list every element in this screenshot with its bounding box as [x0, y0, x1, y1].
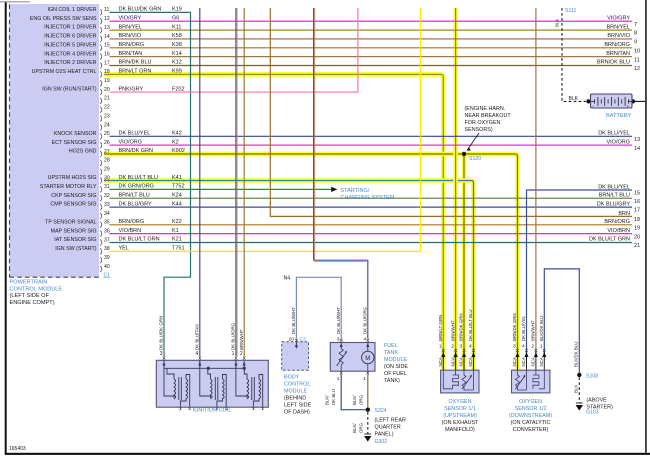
svg-text:13: 13: [104, 25, 110, 31]
svg-text:20: 20: [104, 87, 110, 93]
PCM description text: [10, 280, 63, 306]
wire BRN/WHT from top edge to oxygen sensor 1/2 pin 2: [535, 8, 537, 356]
svg-text:165403: 165403: [9, 446, 26, 452]
svg-text:BRN/ORG: BRN/ORG: [119, 42, 145, 48]
wire BLK/DK BLU from oxygen sensor 1/2 pin 1 to splice S108: [544, 269, 579, 373]
svg-text:PNK/GRY: PNK/GRY: [119, 86, 144, 92]
svg-text:BLK/: BLK/: [352, 395, 357, 405]
svg-text:K24: K24: [172, 192, 182, 198]
starting/charging system label: [341, 188, 395, 201]
wire BRN/WHT from top edge to ignition coil pin 2: [243, 8, 245, 356]
svg-text:BLK: BLK: [574, 385, 579, 393]
svg-text:BRN/ORG: BRN/ORG: [604, 42, 630, 48]
svg-text:IGN SW (RUN/START): IGN SW (RUN/START): [42, 87, 96, 93]
svg-text:BODY: BODY: [284, 375, 300, 381]
fuel tank module bottom pins: [337, 372, 369, 382]
PCM module box (Powertrain Control Module): [10, 4, 100, 277]
left rear quarter panel note: [375, 418, 406, 438]
svg-text:IGN COIL 1 DRIVER: IGN COIL 1 DRIVER: [48, 7, 97, 13]
svg-text:3: 3: [160, 351, 163, 357]
svg-text:BRN/YEL: BRN/YEL: [606, 24, 630, 30]
wire pin 26 VIO/ORG to right edge 14: [110, 144, 633, 146]
PCM connector label C1: [104, 273, 111, 279]
svg-text:S120: S120: [469, 156, 481, 162]
svg-text:19: 19: [634, 225, 640, 231]
rotated labels BLK/DK BLU and BLK/ORG at fuel tank module bottom: [325, 389, 364, 405]
svg-text:K42: K42: [172, 131, 182, 137]
svg-text:SENSOR 1/1: SENSOR 1/1: [444, 406, 476, 412]
rotated label BLK below S108: [574, 385, 579, 393]
svg-text:DK BLU/YEL: DK BLU/YEL: [521, 315, 526, 341]
svg-text:40: 40: [104, 264, 110, 270]
wire BLK dashed from S108 to ground G103: [578, 377, 580, 402]
svg-text:BRN/DK BLU: BRN/DK BLU: [597, 60, 630, 66]
svg-text:(ENGINE HARN.: (ENGINE HARN.: [465, 106, 506, 112]
body control module labels: [284, 375, 312, 416]
svg-text:23: 23: [104, 113, 110, 119]
svg-text:14: 14: [634, 146, 640, 152]
svg-text:35: 35: [104, 220, 110, 226]
svg-text:22: 22: [104, 105, 110, 111]
svg-text:MODULE: MODULE: [284, 389, 307, 395]
svg-text:1: 1: [540, 344, 543, 350]
svg-text:(ON CATALYTIC: (ON CATALYTIC: [511, 420, 551, 426]
svg-text:1: 1: [337, 376, 340, 382]
svg-text:1: 1: [232, 351, 235, 357]
svg-text:DK BLU/GRY: DK BLU/GRY: [119, 201, 153, 207]
svg-text:17: 17: [104, 60, 110, 66]
svg-text:16: 16: [104, 51, 110, 57]
svg-text:K38: K38: [172, 42, 182, 48]
wire pin 12 VIO/GRY to right edge 7: [110, 20, 633, 22]
page border left: [5, 2, 7, 454]
svg-text:S108: S108: [586, 373, 598, 379]
svg-text:3: 3: [513, 344, 516, 350]
svg-text:BRN/LT GRN: BRN/LT GRN: [438, 315, 443, 341]
svg-text:NCA: NCA: [539, 357, 544, 366]
right edge wire labels and numbers: [589, 15, 640, 249]
svg-text:(ON SIDE: (ON SIDE: [384, 364, 408, 370]
svg-text:M: M: [365, 356, 370, 362]
svg-text:21: 21: [634, 243, 640, 249]
svg-text:OF FUEL: OF FUEL: [384, 371, 407, 377]
wire pin 30 DK BLU/LT BLU (highlighted) to oxygen sensor 1/1 pin 4: [104, 181, 474, 370]
svg-text:OXYGEN: OXYGEN: [448, 399, 471, 405]
svg-text:BRN/DK GRN: BRN/DK GRN: [119, 148, 154, 154]
wire BLK/ORG dashed from S324 to ground G302: [367, 412, 369, 434]
svg-text:UPSTRM O2S HEAT CTRL: UPSTRM O2S HEAT CTRL: [32, 69, 97, 75]
svg-text:CONVERTER): CONVERTER): [513, 427, 549, 433]
svg-text:28: 28: [104, 158, 110, 164]
svg-text:18: 18: [104, 69, 110, 75]
svg-text:34: 34: [104, 211, 110, 217]
svg-text:F202: F202: [172, 86, 185, 92]
svg-text:8: 8: [634, 31, 637, 37]
svg-text:BATTERY: BATTERY: [606, 113, 632, 119]
svg-text:VIO/BRN: VIO/BRN: [607, 228, 630, 234]
svg-text:VIO/ORG: VIO/ORG: [119, 139, 143, 145]
svg-text:C1: C1: [104, 273, 111, 279]
wire pin 16 BRN/TAN to right edge 11: [110, 56, 633, 58]
wire pin 32 BRN/LT BLU to right edge 16: [110, 197, 633, 199]
body control module wire label and pin: [284, 276, 306, 343]
svg-text:IAT SENSOR SIG: IAT SENSOR SIG: [54, 237, 96, 243]
svg-text:ENG OIL PRESS SW SENS: ENG OIL PRESS SW SENS: [30, 16, 97, 22]
svg-text:BLK/: BLK/: [325, 395, 330, 405]
wire pin 18 BRN/LT GRN (highlighted) to oxygen sensor 1/1 pin 1: [104, 74, 443, 370]
svg-text:HO2S GND: HO2S GND: [69, 149, 97, 155]
svg-text:DK BLU/ORG: DK BLU/ORG: [363, 306, 368, 334]
svg-text:38: 38: [104, 246, 110, 252]
svg-text:K41: K41: [172, 175, 182, 181]
svg-text:(DOWNSTREAM): (DOWNSTREAM): [509, 413, 552, 419]
oxygen sensor 1/1 labels: [442, 399, 480, 433]
svg-text:TP SENSOR SIGNAL: TP SENSOR SIGNAL: [45, 219, 96, 225]
svg-text:INJECTOR 5 DRIVER: INJECTOR 5 DRIVER: [44, 42, 96, 48]
svg-text:DK BLU/TAN: DK BLU/TAN: [195, 324, 200, 350]
svg-text:DK BLU/LT BLU: DK BLU/LT BLU: [468, 309, 473, 341]
svg-text:OXYGEN: OXYGEN: [519, 399, 542, 405]
page border bottom: [5, 453, 650, 455]
svg-text:37: 37: [104, 237, 110, 243]
svg-text:DK BLU/WHT: DK BLU/WHT: [336, 307, 341, 334]
wire DK BLU/ORG from top edge to ignition coil pin 1: [236, 8, 237, 356]
svg-text:7: 7: [634, 22, 637, 28]
svg-text:36: 36: [104, 228, 110, 234]
wire BRN from top edge to right edge 18: [270, 8, 632, 216]
wire pin 14 BRN/VIO to right edge 9: [110, 38, 633, 40]
wire pin 11 DK BLU/DK GRN to ignition coil pin 3: [110, 12, 191, 356]
wire pin 17 BRN/DK BLU to right edge 12: [110, 65, 633, 67]
svg-text:BLK/: BLK/: [352, 423, 357, 433]
svg-text:FUEL: FUEL: [384, 343, 398, 349]
wire pin 38 YEL up to top edge: [110, 8, 421, 251]
svg-text:39: 39: [104, 255, 110, 261]
svg-text:DK BLU/DK GRN: DK BLU/DK GRN: [119, 7, 162, 13]
svg-text:K14: K14: [172, 51, 182, 57]
svg-text:ORG: ORG: [358, 394, 363, 405]
svg-text:BRN/TAN: BRN/TAN: [606, 51, 630, 57]
svg-text:19: 19: [104, 78, 110, 84]
wire pin 35 BRN/ORG to right edge 19: [110, 224, 633, 226]
oxygen sensor 1/2 connector (pins 3,4,2,1, NCA): [512, 313, 546, 371]
PCM pin function labels: [30, 7, 97, 252]
svg-text:4: 4: [469, 344, 472, 350]
svg-text:DK BLU/LT GRN: DK BLU/LT GRN: [589, 237, 630, 243]
svg-text:3: 3: [337, 337, 340, 343]
svg-text:N4: N4: [284, 276, 291, 282]
svg-text:K58: K58: [172, 33, 182, 39]
svg-text:DK BLU/LT BLU: DK BLU/LT BLU: [119, 175, 159, 181]
svg-text:(ABOVE: (ABOVE: [586, 398, 607, 404]
wire pin 20 PNK/GRY up to top edge: [110, 8, 358, 92]
ignition coil box: [156, 360, 268, 407]
svg-text:BRN/ORG: BRN/ORG: [604, 219, 630, 225]
body control module box: [282, 342, 309, 371]
svg-text:25: 25: [104, 131, 110, 137]
oxygen sensor 1/1 connector (pins 1-4, NCA): [438, 309, 476, 371]
svg-text:STARTER MOTOR RLY: STARTER MOTOR RLY: [40, 184, 97, 190]
diagram number 165403: [9, 446, 26, 452]
svg-text:(BEHIND: (BEHIND: [284, 396, 306, 402]
svg-text:OF DASH): OF DASH): [284, 410, 310, 416]
svg-text:BRN/ORG: BRN/ORG: [119, 219, 145, 225]
wire pin 33 DK BLU/GRY to right edge 17: [110, 206, 633, 208]
svg-text:32: 32: [104, 193, 110, 199]
wire BRN/WHT (highlighted) from top edge to oxygen sensor 1/1 pin 2: [453, 8, 458, 370]
svg-text:BRN/LT BLU: BRN/LT BLU: [599, 192, 630, 198]
page border right: [645, 0, 647, 453]
wire BLK/DK BLU from fuel tank module pin 1 to S324: [341, 375, 365, 410]
fuel tank module box: [330, 343, 375, 372]
svg-text:CMP SENSOR SIG: CMP SENSOR SIG: [50, 202, 96, 208]
oxygen sensor 1/1 internals: [443, 370, 473, 390]
svg-text:MODULE: MODULE: [384, 357, 407, 363]
fuel tank module wire labels and pins: [336, 306, 369, 342]
svg-text:20: 20: [634, 234, 640, 240]
svg-text:DK BLU/LT GRN: DK BLU/LT GRN: [119, 237, 160, 243]
svg-text:13: 13: [634, 137, 640, 143]
wire DK BLU/ORG from top edge to fuel tank module pin 4: [314, 8, 368, 339]
svg-text:POWERTRAIN: POWERTRAIN: [10, 280, 48, 286]
PCM wire colour and circuit code labels: [119, 7, 185, 252]
svg-text:(UPSTREAM): (UPSTREAM): [443, 413, 477, 419]
svg-text:(LEFT REAR: (LEFT REAR: [375, 418, 406, 424]
wire pin 36 VIO/BRN to right edge 20: [110, 233, 633, 235]
svg-text:NCA: NCA: [459, 357, 464, 366]
svg-text:SENSOR 1/2: SENSOR 1/2: [515, 406, 547, 412]
svg-text:BRN/YEL: BRN/YEL: [119, 24, 143, 30]
svg-text:INJECTOR 4 DRIVER: INJECTOR 4 DRIVER: [44, 51, 96, 57]
svg-text:DK BLU/YEL: DK BLU/YEL: [119, 131, 151, 137]
svg-text:STARTER): STARTER): [586, 405, 613, 411]
svg-text:BLK: BLK: [569, 96, 579, 102]
battery: [586, 94, 645, 119]
svg-text:+: +: [627, 104, 630, 109]
engine harness note and arrow to S120: [465, 106, 512, 151]
svg-text:17: 17: [634, 208, 640, 214]
svg-text:STARTING/: STARTING/: [341, 188, 370, 194]
svg-text:SENSORS): SENSORS): [465, 127, 493, 133]
svg-text:31: 31: [104, 184, 110, 190]
svg-text:12: 12: [104, 16, 110, 22]
svg-text:DK BLU/DK GRN: DK BLU/DK GRN: [159, 316, 164, 350]
svg-text:G302: G302: [375, 439, 388, 445]
svg-text:T751: T751: [172, 246, 185, 252]
ignition coil pin labels and connector: [159, 316, 246, 360]
svg-text:BRN/DK GRN: BRN/DK GRN: [512, 313, 517, 341]
svg-text:NEAR BREAKOUT: NEAR BREAKOUT: [465, 113, 512, 119]
ignition coil label: [193, 408, 232, 414]
svg-text:29: 29: [104, 167, 110, 173]
svg-text:24: 24: [104, 122, 110, 128]
oxygen sensor 1/2 internals: [516, 370, 545, 390]
svg-text:15: 15: [634, 191, 640, 197]
wire pin 27 BRN/DK GRN (highlighted) through S120 to oxygen sensor 1/2 pin 3: [104, 154, 518, 370]
wire N4 DK BLU/WHT to body control module and fuel tank module pin 3: [296, 277, 341, 339]
wire pin 31 DK GRN/ORG to starting/charging system arrow: [110, 187, 338, 192]
svg-text:K2: K2: [172, 139, 179, 145]
svg-text:4: 4: [522, 344, 525, 350]
svg-text:BRN/WHT: BRN/WHT: [239, 329, 244, 350]
svg-text:IGN SW (START): IGN SW (START): [55, 246, 97, 252]
svg-text:VIO/BRN: VIO/BRN: [119, 228, 142, 234]
svg-text:INJECTOR 6 DRIVER: INJECTOR 6 DRIVER: [44, 34, 96, 40]
svg-text:BRN: BRN: [618, 211, 630, 217]
svg-text:DK BLU/YEL: DK BLU/YEL: [598, 131, 630, 137]
svg-text:4: 4: [196, 351, 199, 357]
svg-text:DK BLU/ORG: DK BLU/ORG: [231, 322, 236, 350]
svg-text:BRN/LT BLU: BRN/LT BLU: [119, 192, 150, 198]
svg-text:BRN/WHT: BRN/WHT: [531, 320, 536, 341]
svg-text:10: 10: [634, 48, 640, 54]
ground G302: [364, 434, 387, 445]
svg-text:K44: K44: [172, 201, 182, 207]
oxygen sensor 1/2 labels: [509, 399, 552, 433]
svg-text:VIO/GRY: VIO/GRY: [607, 15, 630, 21]
svg-text:2: 2: [531, 344, 534, 350]
svg-text:CONTROL: CONTROL: [284, 382, 310, 388]
svg-text:BRN/VIO: BRN/VIO: [119, 33, 142, 39]
svg-text:TANK): TANK): [384, 378, 400, 384]
svg-text:K22: K22: [172, 219, 182, 225]
rotated label BLK/ORG below S324: [352, 422, 363, 433]
svg-text:UPSTRM HO2S SIG: UPSTRM HO2S SIG: [48, 175, 97, 181]
svg-text:1: 1: [439, 344, 442, 350]
wire BLK dashed S111 to battery: [562, 8, 586, 101]
svg-text:14: 14: [104, 34, 110, 40]
svg-text:VIO/ORG: VIO/ORG: [606, 139, 630, 145]
svg-text:33: 33: [104, 202, 110, 208]
svg-text:S111: S111: [565, 8, 576, 14]
rotated label BLK/DK BLU at S108 drop: [574, 342, 579, 367]
svg-text:ORG: ORG: [358, 422, 363, 433]
fuel tank module labels: [384, 343, 408, 384]
svg-text:IGNITION COIL: IGNITION COIL: [193, 408, 232, 414]
svg-text:(ON EXHAUST: (ON EXHAUST: [442, 420, 480, 426]
svg-text:QUARTER: QUARTER: [375, 425, 401, 431]
svg-text:DK BLU: DK BLU: [331, 389, 336, 405]
svg-text:BRN/WHT: BRN/WHT: [450, 320, 455, 341]
wire DK BLU/TAN from top edge to ignition coil pin 4: [199, 8, 201, 356]
svg-text:15: 15: [104, 43, 110, 49]
oxygen sensor 1/2 box: [512, 370, 550, 393]
svg-text:NCA: NCA: [438, 357, 443, 366]
svg-text:KNOCK SENSOR: KNOCK SENSOR: [54, 131, 97, 137]
svg-text:9: 9: [634, 40, 637, 46]
svg-text:ENGINE COMPT): ENGINE COMPT): [10, 300, 55, 306]
svg-text:K1: K1: [172, 228, 179, 234]
svg-text:S324: S324: [375, 408, 387, 414]
svg-text:30: 30: [104, 175, 110, 181]
svg-text:11: 11: [634, 57, 640, 63]
svg-text:CHARGING SYSTEM: CHARGING SYSTEM: [341, 195, 395, 201]
splice S120: [462, 152, 481, 162]
svg-text:K19: K19: [172, 7, 182, 13]
svg-text:DK GRN/ORG: DK GRN/ORG: [119, 184, 154, 190]
oxygen sensor 1/1 box: [441, 370, 479, 393]
svg-text:ECT SENSOR SIG: ECT SENSOR SIG: [52, 140, 97, 146]
svg-text:MANIFOLD): MANIFOLD): [445, 427, 475, 433]
svg-text:K902: K902: [172, 148, 185, 154]
wire DK BLU/YEL from oxygen sensor 1/2 pin 4 to right edge 15: [527, 190, 633, 356]
top-left crop stub: [0, 1, 30, 2]
svg-text:BRN/TAN: BRN/TAN: [119, 51, 143, 57]
svg-text:NCA: NCA: [512, 357, 517, 366]
svg-text:NCA: NCA: [521, 357, 526, 366]
splice S108: [577, 373, 598, 380]
splice S324: [366, 408, 387, 415]
svg-text:TANK: TANK: [384, 350, 398, 356]
svg-text:INJECTOR 2 DRIVER: INJECTOR 2 DRIVER: [44, 60, 96, 66]
svg-text:FOR OXYGEN: FOR OXYGEN: [465, 120, 501, 126]
svg-text:BLK: BLK: [555, 19, 560, 27]
svg-text:BRN/DK GRN: BRN/DK GRN: [459, 313, 464, 341]
svg-text:27: 27: [104, 149, 110, 155]
svg-text:11: 11: [104, 7, 109, 13]
svg-text:12: 12: [634, 66, 640, 72]
svg-text:2: 2: [240, 351, 243, 357]
svg-text:26: 26: [104, 140, 110, 146]
svg-text:BRN/DK BLU: BRN/DK BLU: [119, 60, 152, 66]
fuel tank module internals (level sender and pump motor): [337, 343, 374, 371]
svg-text:18: 18: [634, 217, 640, 223]
wire pin 13 BRN/YEL to right edge 8: [110, 29, 633, 31]
svg-text:(LEFT SIDE OF: (LEFT SIDE OF: [10, 293, 50, 299]
svg-text:NCA: NCA: [450, 357, 455, 366]
wire branch S120 BRN/DK GRN (highlighted) down to oxygen sensor 1/1 pin 3: [462, 154, 467, 370]
svg-text:21: 21: [104, 96, 110, 102]
splice S111 labels: [555, 8, 579, 102]
svg-text:CKP SENSOR SIG: CKP SENSOR SIG: [51, 193, 96, 199]
svg-text:4: 4: [363, 337, 366, 343]
wire pin 15 BRN/ORG to right edge 10: [110, 47, 633, 49]
svg-text:K12: K12: [172, 60, 182, 66]
svg-text:NCA: NCA: [468, 357, 473, 366]
svg-text:DK BLU/YEL: DK BLU/YEL: [598, 185, 630, 191]
wire pin 37 DK BLU/LT GRN to right edge 21: [110, 242, 633, 244]
svg-text:DK BLU/WHT: DK BLU/WHT: [291, 307, 296, 334]
svg-text:PANEL): PANEL): [375, 432, 394, 438]
svg-text:G6: G6: [172, 15, 179, 21]
svg-text:DK BLU/GRY: DK BLU/GRY: [597, 201, 631, 207]
svg-text:BRN/LT GRN: BRN/LT GRN: [119, 69, 152, 75]
svg-text:K11: K11: [172, 24, 181, 30]
svg-text:MAP SENSOR SIG: MAP SENSOR SIG: [51, 228, 97, 234]
svg-text:VIO/GRY: VIO/GRY: [119, 15, 142, 21]
svg-text:CONTROL MODULE: CONTROL MODULE: [10, 286, 63, 292]
ignition coil internals: [162, 360, 263, 410]
ground G103: [576, 398, 613, 416]
svg-text:BLK/DK BLU: BLK/DK BLU: [539, 316, 544, 341]
svg-text:LEFT SIDE: LEFT SIDE: [284, 403, 312, 409]
svg-text:3: 3: [460, 344, 463, 350]
svg-text:INJECTOR 1 DRIVER: INJECTOR 1 DRIVER: [44, 25, 96, 31]
svg-text:K21: K21: [172, 237, 182, 243]
svg-text:16: 16: [634, 199, 640, 205]
wire pin 25 DK BLU/YEL to right edge 13: [110, 135, 633, 137]
svg-text:2: 2: [451, 344, 454, 350]
svg-text:NCA: NCA: [531, 357, 536, 366]
svg-text:K99: K99: [172, 69, 182, 75]
PCM connector C1 pins 11-40 (pin sockets and numbers): [100, 7, 110, 272]
svg-text:1: 1: [363, 376, 366, 382]
wire BLK/ORG from fuel tank module pin 1 to S324: [367, 375, 369, 410]
svg-text:YEL: YEL: [119, 246, 129, 252]
svg-text:BRN/VIO: BRN/VIO: [607, 33, 630, 39]
svg-text:T752: T752: [172, 184, 185, 190]
svg-text:BLK/DK BLU: BLK/DK BLU: [574, 342, 579, 367]
